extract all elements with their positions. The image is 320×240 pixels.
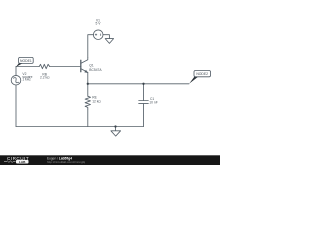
svg-text:10 nF: 10 nF [149,101,157,105]
wire emitter rail [88,83,189,85]
wire V2 bottom lead [15,85,17,127]
node label NODE2 [189,71,210,84]
transistor Q1 collector diagonal [81,57,88,63]
V1 plus sign [95,34,101,36]
svg-text:12 kΩ: 12 kΩ [92,100,101,104]
svg-text:5 V: 5 V [96,21,102,25]
wire base rail right [50,66,81,68]
svg-text:BC547A: BC547A [89,68,102,72]
wire emitter pin [87,72,89,83]
transistor Q1 emitter arrowhead [84,70,87,73]
wire base rail left [16,66,39,68]
labels [22,19,157,105]
wire V2 top lead [15,67,17,76]
svg-text:http://circuitlab.com/c/nnngfq: http://circuitlab.com/c/nnngfq [47,160,86,164]
resistor RB [39,64,50,68]
wire capacitor bottom lead [143,104,145,127]
wire RE bottom lead [87,109,89,127]
voltage source V1 circle [93,30,103,40]
footer logo zigzag [4,161,16,163]
capacitor C1 plates [139,100,149,102]
V2 square-wave glyph [12,77,19,84]
voltage source V2 circle [11,75,21,85]
wire bottom rail [16,126,144,128]
svg-text:1 kHz: 1 kHz [22,78,31,82]
wire RE top lead [87,84,89,96]
svg-text:2.2 kΩ: 2.2 kΩ [40,76,50,80]
wire V1 to ground [103,35,109,39]
svg-text:NODE1: NODE1 [20,59,32,63]
footer logo LAB badge [16,160,29,164]
wire capacitor top lead [143,84,145,101]
svg-text:NODE2: NODE2 [196,72,208,76]
resistor RE [85,96,90,109]
transistor Q1 base bar [80,60,82,71]
svg-text:LAB: LAB [19,160,26,164]
ground top [105,39,113,44]
junction dot emitter node [87,83,89,85]
node label NODE1 [16,57,33,67]
wire collector to V1 [88,35,94,58]
footer bar [0,155,220,165]
transistor Q1 emitter diagonal [81,69,88,73]
ground bottom [111,127,121,137]
V1 minus sign [100,34,102,36]
junction dot capacitor tap [142,83,144,85]
junction dot ground tap [114,125,116,127]
